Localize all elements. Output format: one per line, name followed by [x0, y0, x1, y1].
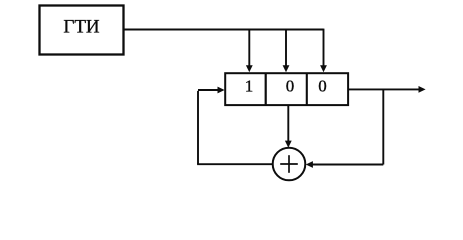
wire clock drop 2	[285, 29, 287, 66]
wire left feedback horizontal	[197, 163, 273, 165]
register cells box	[225, 73, 348, 105]
wire clock drop 1	[248, 29, 250, 66]
wire register input	[198, 89, 219, 91]
wire clock drop 3	[323, 29, 325, 66]
svg-text:1: 1	[245, 77, 254, 96]
register divider 1	[265, 73, 267, 105]
svg-text:0: 0	[318, 77, 327, 96]
arrowhead output	[419, 86, 426, 93]
arrowhead right feedback into adder	[306, 161, 313, 168]
adder XOR circle	[273, 148, 306, 181]
wire tap from middle cell	[287, 106, 289, 142]
block U1 GTI clock generator box	[40, 6, 124, 55]
wire left feedback vertical	[197, 91, 199, 164]
arrowhead tap into adder	[285, 141, 292, 148]
arrowhead register input	[218, 87, 225, 94]
wire right feedback vertical	[382, 89, 384, 164]
arrowhead clock 2	[283, 65, 290, 72]
svg-text:0: 0	[286, 77, 295, 96]
wire clock bus from GTI to last tap	[125, 29, 324, 31]
adder plus sign	[280, 163, 298, 165]
wire output	[349, 88, 419, 90]
wire right feedback horizontal	[313, 164, 384, 166]
arrowhead clock 3	[320, 65, 327, 72]
register divider 2	[306, 73, 308, 105]
arrowhead clock 1	[246, 65, 253, 72]
svg-text:ГТИ: ГТИ	[63, 17, 100, 38]
